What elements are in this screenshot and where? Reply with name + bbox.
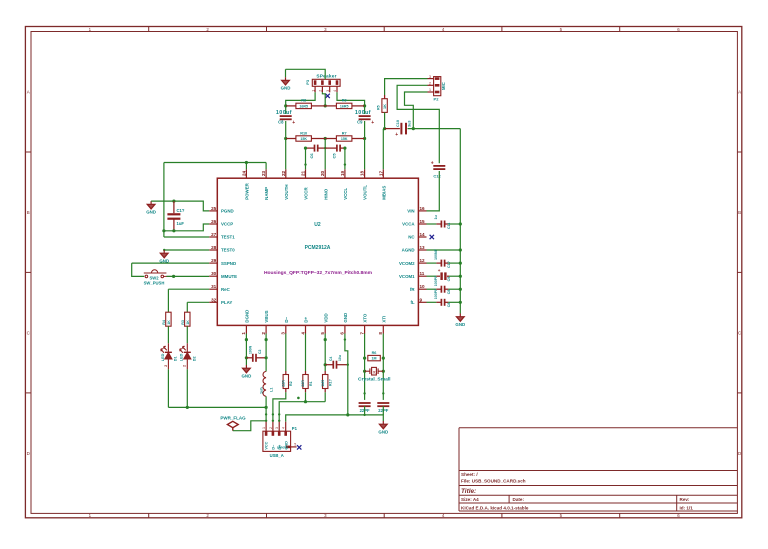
- svg-text:1: 1: [429, 88, 431, 92]
- junction VDD: [324, 338, 327, 341]
- junction D2 on LED bus: [186, 406, 189, 409]
- wire pin1 DGND down: [245, 334, 247, 366]
- wire C2 right lead: [256, 357, 266, 359]
- svg-text:C6: C6: [309, 153, 314, 159]
- wire C11 right pin: [444, 223, 448, 225]
- svg-text:C8: C8: [447, 290, 451, 295]
- resistor R2: [283, 375, 288, 389]
- svg-text:20: 20: [320, 170, 325, 176]
- wire C13 left pin: [436, 262, 441, 264]
- junction C6/C5 center: [324, 147, 326, 149]
- title block: [459, 428, 737, 511]
- svg-text:Size: A4: Size: A4: [461, 497, 479, 502]
- P1 pin 1 VCC: [265, 422, 267, 431]
- capacitor C4: [333, 361, 336, 369]
- switch SW2 SW_PUSH: [144, 270, 171, 278]
- svg-text:shield: shield: [277, 445, 289, 449]
- P3 pin 3: [329, 86, 331, 92]
- wire R7 left lead: [325, 138, 336, 140]
- svg-text:3: 3: [281, 332, 286, 335]
- wire to pin 26 VCCP: [164, 224, 209, 231]
- svg-text:5: 5: [320, 332, 325, 335]
- wire C10 to AGND bus top: [408, 128, 461, 130]
- junction C17 top: [172, 200, 175, 203]
- svg-text:23: 23: [261, 170, 266, 176]
- wire C14 to bus: [449, 275, 460, 277]
- inductor L1: [263, 372, 266, 397]
- pin 31 ReC (left): [209, 288, 217, 290]
- svg-text:GND: GND: [242, 373, 252, 378]
- capacitor C2: [253, 354, 256, 362]
- capacitor C8 100uf: [280, 116, 292, 119]
- P3 pin 1: [314, 86, 316, 92]
- resistor R7: [336, 136, 352, 141]
- svg-text:1M5: 1M5: [321, 380, 325, 387]
- wire D+ line to USB D+: [279, 402, 325, 422]
- wire R2 to USB D-: [273, 392, 286, 422]
- svg-text:21: 21: [301, 170, 306, 176]
- svg-text:L1: L1: [270, 388, 274, 392]
- wire to pin 20 HINO: [324, 139, 326, 170]
- wire pin8 XTI down: [382, 334, 384, 400]
- wire R3 lead to D2 top: [186, 326, 188, 343]
- svg-text:C8: C8: [447, 303, 451, 308]
- wire pin 28 TEST0 to ground: [164, 249, 209, 251]
- junction D- column: [272, 413, 274, 415]
- wire R8 left lead: [286, 105, 296, 107]
- wire C10 left lead: [385, 128, 400, 130]
- pin 30 MMUTE (left): [209, 275, 217, 277]
- svg-text:16R5: 16R5: [340, 105, 349, 109]
- pin 15 VCCA (right): [418, 223, 426, 225]
- wire C17 bottom lead: [173, 219, 175, 230]
- pin 4 D+ (bottom): [305, 325, 307, 333]
- junction stray: [297, 397, 300, 400]
- wire speaker gnd stem: [285, 69, 287, 77]
- svg-text:D1: D1: [173, 356, 177, 361]
- wire C12 to pin 16 VIN: [427, 171, 440, 211]
- svg-text:17: 17: [378, 170, 383, 176]
- junction VCC column PWR_FLAG: [265, 420, 267, 422]
- svg-text:D: D: [27, 451, 30, 456]
- svg-text:16R5: 16R5: [299, 105, 308, 109]
- svg-text:NAMP: NAMP: [264, 187, 269, 200]
- svg-text:R10: R10: [300, 131, 307, 135]
- wire L1 to USB VCC: [265, 396, 267, 422]
- wire R5 top lead: [384, 95, 386, 99]
- junction left rail R8: [284, 104, 287, 107]
- wire pin6 GND down to gnd bus: [345, 334, 348, 415]
- wire ReC down to R4: [167, 289, 169, 312]
- junction HBIAS/C10: [383, 127, 386, 130]
- wire P3 pin1 to left rail: [286, 92, 315, 106]
- junction LED bus at VCC column: [265, 406, 268, 409]
- svg-text:1M: 1M: [372, 357, 377, 361]
- svg-text:+: +: [438, 268, 441, 273]
- svg-text:MMUTE: MMUTE: [221, 274, 237, 279]
- svg-text:5: 5: [294, 443, 296, 447]
- pin 27 TEST1 (left): [209, 236, 217, 238]
- connector P3 Speaker body: [312, 79, 340, 86]
- junction C10 right: [412, 127, 415, 130]
- svg-text:22: 22: [281, 170, 286, 176]
- svg-text:3: 3: [326, 90, 330, 92]
- svg-text:2: 2: [183, 365, 187, 367]
- svg-text:SW_PUSH: SW_PUSH: [144, 281, 165, 286]
- svg-text:SSPND: SSPND: [221, 261, 236, 266]
- svg-text:R5: R5: [377, 105, 381, 110]
- junction XTI R6: [382, 357, 385, 360]
- svg-text:+: +: [292, 120, 295, 126]
- wire POWER/NAMP top rail: [164, 162, 266, 164]
- svg-text:fR: fR: [410, 287, 415, 292]
- wire R9 left lead: [325, 105, 336, 107]
- wire to pin 23: [265, 163, 267, 170]
- svg-text:15K: 15K: [300, 137, 307, 141]
- svg-text:Date:: Date:: [513, 497, 525, 502]
- pin 17 MBIAS (top): [382, 169, 384, 178]
- svg-text:XTI: XTI: [381, 316, 386, 323]
- P1 pin 2 D&#8722;: [272, 422, 274, 431]
- frame row ticks: [25, 152, 741, 393]
- wire pin3 D- down: [285, 334, 287, 372]
- no-connect pin 14 NC: [430, 235, 434, 239]
- junction C2 left: [245, 356, 248, 359]
- pin 25 PGND (left): [209, 210, 217, 212]
- P2 pin 3: [428, 78, 434, 80]
- svg-text:Rev:: Rev:: [680, 497, 690, 502]
- svg-text:32: 32: [211, 297, 217, 302]
- wire C4 right lead: [336, 364, 347, 366]
- svg-text:100N: 100N: [249, 345, 253, 354]
- junction VOUTH rail R10: [284, 137, 287, 140]
- resistor R3: [185, 312, 190, 326]
- pin 16 VIN (right): [418, 210, 426, 212]
- svg-text:POWER: POWER: [245, 182, 250, 199]
- wire C6 to pin 21 VCCR: [305, 148, 307, 169]
- svg-text:9: 9: [420, 297, 423, 302]
- svg-text:VDD: VDD: [323, 313, 328, 322]
- wire D1 to LED bus: [167, 369, 169, 407]
- pin 3 D&#8722; (bottom): [285, 325, 287, 333]
- svg-text:TEST1: TEST1: [221, 235, 235, 240]
- crystal X1 Crystal_Small: [365, 367, 384, 375]
- wire P2 pin2 to C12: [397, 85, 439, 163]
- svg-text:P2: P2: [434, 97, 440, 102]
- svg-text:C4: C4: [329, 357, 333, 361]
- P3 pin 2: [321, 86, 323, 92]
- junction right rail R9: [363, 104, 366, 107]
- capacitor C10: [401, 123, 406, 135]
- capacitor C14: [442, 272, 446, 280]
- junction bus VCOM1: [459, 275, 462, 278]
- pin 12 VCOM2 (right): [418, 262, 426, 264]
- wire P2 pin1 to C10 node: [405, 92, 428, 129]
- svg-text:100uf: 100uf: [276, 110, 292, 116]
- P1 pin 4 GND: [285, 422, 287, 431]
- svg-text:P3: P3: [305, 79, 310, 85]
- svg-text:NC: NC: [408, 235, 415, 240]
- svg-text:22R: 22R: [301, 380, 305, 387]
- svg-text:C11: C11: [447, 223, 451, 229]
- junction VOUTL rail R7: [363, 137, 366, 140]
- wire LED bus to VCC column: [168, 406, 266, 408]
- svg-text:D+: D+: [304, 316, 309, 322]
- wire R9 right lead: [352, 105, 365, 107]
- svg-text:3: 3: [429, 75, 431, 79]
- wire vertical TEST1 rail: [163, 163, 165, 238]
- svg-text:24: 24: [241, 170, 246, 176]
- junction TEST0 gnd: [163, 249, 165, 251]
- svg-text:R1: R1: [309, 381, 313, 386]
- junction pin19 wire: [344, 163, 346, 165]
- resistor R1: [303, 375, 308, 389]
- wire C3 to gnd bus: [382, 406, 384, 415]
- svg-text:C9: C9: [357, 120, 363, 125]
- svg-text:VCC: VCC: [265, 441, 269, 449]
- wire C15 left pin: [436, 288, 441, 290]
- junction bus AGND: [459, 248, 462, 251]
- svg-text:GND: GND: [281, 86, 291, 91]
- wire R8 right lead: [312, 105, 326, 107]
- svg-text:VCCP: VCCP: [221, 222, 233, 227]
- svg-text:+: +: [431, 161, 434, 167]
- capacitor C12: [433, 166, 445, 169]
- wire to C8: [285, 106, 287, 114]
- wire P2 pin3 to R5: [385, 79, 428, 95]
- pin 11 VCOM1 (right): [418, 275, 426, 277]
- svg-text:GND: GND: [455, 322, 465, 327]
- svg-text:1K: 1K: [383, 104, 387, 109]
- wire C14 right pin: [447, 275, 449, 277]
- wire GND to pin 25 PGND: [151, 201, 209, 211]
- capacitor C15: [441, 286, 444, 293]
- svg-text:AGND: AGND: [402, 248, 415, 253]
- svg-text:1uh: 1uh: [259, 387, 263, 394]
- svg-text:15: 15: [420, 219, 426, 224]
- svg-text:100uf: 100uf: [355, 110, 371, 116]
- wire pin4 D+ down: [305, 334, 307, 372]
- svg-text:C: C: [27, 330, 30, 335]
- svg-text:100NF: 100NF: [434, 248, 438, 260]
- wire C17 top lead: [173, 201, 175, 213]
- wire R11 bottom lead: [324, 389, 326, 393]
- wire pin15 VCCA: [427, 223, 437, 225]
- svg-text:GND: GND: [343, 313, 348, 323]
- wire R1 top lead: [305, 371, 307, 375]
- svg-text:10: 10: [420, 284, 426, 289]
- svg-text:6: 6: [340, 332, 345, 335]
- pin 2 VBUS (bottom): [265, 325, 267, 333]
- pin 9 fL (right): [418, 301, 426, 303]
- svg-text:GND: GND: [146, 210, 156, 215]
- svg-text:4: 4: [282, 427, 286, 429]
- ground DGND: [243, 365, 251, 373]
- svg-text:MBIAS: MBIAS: [381, 186, 386, 200]
- wire pin 32 PLAY: [187, 301, 209, 303]
- svg-text:C8: C8: [278, 120, 284, 125]
- wire pin7 XTO down: [364, 334, 366, 400]
- wire SSPND down to switch: [132, 263, 145, 276]
- svg-text:X1: X1: [373, 370, 377, 374]
- svg-text:D−: D−: [284, 316, 289, 322]
- svg-text:File: USB_SOUND_CARD.sch: File: USB_SOUND_CARD.sch: [461, 479, 526, 484]
- pin 28 TEST0 (left): [209, 249, 217, 251]
- wire C6 right lead: [318, 147, 326, 149]
- no-connect on P3 pin 3: [325, 94, 329, 98]
- svg-text:29: 29: [211, 258, 217, 263]
- svg-text:11: 11: [420, 271, 425, 276]
- wire pin2 VBUS down: [265, 334, 267, 372]
- svg-text:MIC: MIC: [441, 82, 446, 90]
- svg-text:TEST0: TEST0: [221, 248, 235, 253]
- svg-text:Id: 1/1: Id: 1/1: [680, 505, 694, 510]
- svg-text:VIN: VIN: [407, 209, 414, 214]
- wire C16 right pin: [444, 301, 448, 303]
- LED D2: [180, 343, 191, 369]
- svg-text:VCOM1: VCOM1: [399, 274, 415, 279]
- svg-text:100PF: 100PF: [434, 275, 438, 286]
- svg-text:1: 1: [241, 332, 246, 335]
- pin 29 SSPND (left): [209, 262, 217, 264]
- svg-text:3u3: 3u3: [408, 120, 412, 127]
- LED D1: [161, 343, 172, 369]
- wire pin10 fR: [427, 288, 437, 290]
- wire pin13 AGND to bus: [427, 249, 461, 251]
- capacitor C13: [441, 260, 444, 267]
- ground at TEST0: [160, 250, 168, 258]
- junction pin21 wire: [304, 163, 306, 165]
- svg-text:16: 16: [420, 206, 426, 211]
- junction bus VCOM2: [459, 262, 462, 265]
- wire R1 bottom to D+ line: [305, 392, 307, 401]
- junction D- column low: [272, 420, 274, 422]
- P2 pin pads: [435, 77, 440, 93]
- svg-text:4: 4: [333, 90, 337, 92]
- svg-text:ReC: ReC: [221, 287, 231, 292]
- svg-text:P1: P1: [292, 426, 298, 431]
- svg-text:VBUS: VBUS: [264, 310, 269, 322]
- resistor R8: [296, 103, 312, 108]
- junction C2 right: [265, 356, 268, 359]
- svg-text:VCCA: VCCA: [402, 222, 415, 227]
- svg-text:12: 12: [420, 258, 426, 263]
- wire C5 right lead: [340, 147, 345, 149]
- svg-text:C: C: [738, 330, 741, 335]
- capacitor C7 22PF: [359, 403, 371, 406]
- wire R1 bottom lead: [305, 389, 307, 393]
- pin 1 DGND (bottom): [245, 325, 247, 333]
- svg-text:XTO: XTO: [363, 313, 368, 323]
- wire C11 to bus: [448, 223, 460, 225]
- wire pin9 fL: [427, 301, 437, 303]
- resistor R4: [166, 312, 171, 326]
- pin 10 fR (right): [418, 288, 426, 290]
- junction TEST1 rail / VCCP: [162, 229, 165, 232]
- wire P3 pin4 to right rail: [337, 92, 365, 106]
- svg-text:GND: GND: [378, 429, 388, 434]
- junction C17 bottom: [172, 229, 175, 232]
- P1 pin 3 D+: [278, 422, 280, 431]
- wire C6 left lead: [306, 147, 315, 149]
- svg-text:VCCR: VCCR: [304, 187, 309, 200]
- junction C4 left: [324, 363, 327, 366]
- svg-text:C12: C12: [433, 174, 441, 179]
- wire C14 left pin: [436, 275, 440, 277]
- svg-text:Title:: Title:: [461, 488, 476, 495]
- svg-text:PCM2912A: PCM2912A: [305, 245, 331, 251]
- capacitor C3 22PF: [377, 403, 389, 406]
- svg-text:R9: R9: [342, 99, 347, 103]
- svg-text:27: 27: [211, 232, 217, 237]
- wire PWR_FLAG to VCC: [233, 421, 266, 431]
- resistor R5: [382, 99, 387, 113]
- pin 21 VCCR (top): [305, 169, 307, 178]
- wire R5 bottom lead to HBIAS node: [384, 112, 386, 128]
- wire pin 17 MBIAS up to C10 node: [383, 129, 384, 170]
- junction C6 left: [304, 147, 307, 150]
- svg-text:B: B: [738, 210, 741, 215]
- pin 6 GND (bottom): [344, 325, 346, 333]
- svg-text:7: 7: [359, 332, 364, 335]
- svg-text:+: +: [395, 132, 398, 138]
- svg-text:LED: LED: [180, 353, 184, 361]
- pin 18 VOUTL (top): [364, 169, 366, 178]
- pin 32 PLAY (left): [209, 301, 217, 303]
- capacitor C9 100uf: [359, 116, 371, 119]
- pin 13 AGND (right): [418, 249, 426, 251]
- svg-text:A: A: [738, 89, 741, 94]
- pin 24 POWER (top): [245, 169, 247, 178]
- svg-text:D: D: [738, 451, 741, 456]
- wire AGND bus vertical: [459, 129, 461, 314]
- wire C8 to VOUTH junction: [285, 121, 287, 139]
- svg-text:U2: U2: [314, 222, 321, 228]
- svg-text:HINO: HINO: [323, 188, 328, 200]
- wire to pin 24: [245, 163, 247, 170]
- junction VCC column mid: [265, 413, 267, 415]
- wire C7 to gnd bus: [364, 406, 366, 415]
- junction gnd bus C7: [363, 414, 365, 416]
- svg-text:2: 2: [429, 82, 431, 86]
- wire to pin 18 VOUTL: [364, 139, 366, 170]
- pin 19 VCCL (top): [344, 169, 346, 178]
- junction GND pin: [344, 338, 346, 340]
- junction XTI cap: [382, 392, 384, 394]
- svg-text:2: 2: [269, 427, 273, 429]
- svg-text:VOUTH: VOUTH: [284, 184, 289, 199]
- wire C13 right pin: [444, 262, 448, 264]
- svg-text:VCCL: VCCL: [343, 188, 348, 200]
- svg-text:1: 1: [311, 90, 315, 92]
- svg-text:C2: C2: [258, 350, 262, 354]
- svg-text:LED: LED: [161, 353, 165, 361]
- svg-text:31: 31: [211, 284, 217, 289]
- junction D+ column: [278, 413, 280, 415]
- pin 23 NAMP (top): [265, 169, 267, 178]
- svg-text:22R: 22R: [281, 380, 285, 387]
- junction MMUTE wire: [172, 275, 175, 278]
- wire to C9: [364, 106, 366, 114]
- wire C16 to bus: [448, 301, 460, 303]
- wire C16 left pin: [436, 301, 441, 303]
- junction center rail R10/R7: [324, 137, 327, 140]
- svg-text:100PF: 100PF: [434, 288, 438, 299]
- junction bus VCCA: [459, 222, 462, 225]
- wire C13 to bus: [448, 262, 460, 264]
- P2 pin 1: [428, 91, 434, 93]
- svg-text:25: 25: [211, 206, 217, 211]
